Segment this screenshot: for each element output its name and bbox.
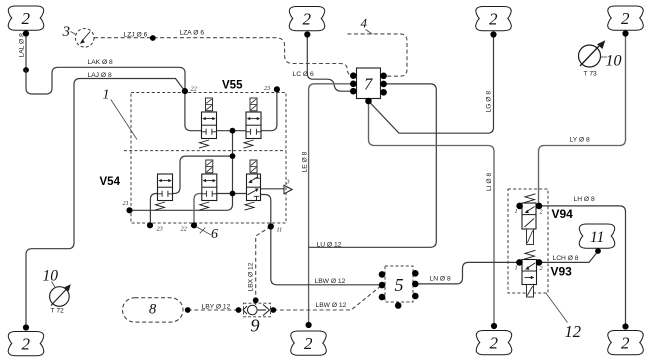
dashed wire LBW from connection 9 to unit 5 xyxy=(273,285,382,310)
svg-text:LY Ø 8: LY Ø 8 xyxy=(570,137,590,144)
svg-text:V93: V93 xyxy=(551,265,573,279)
wire LI from unit 7 bottom to bellows B7 xyxy=(369,101,495,326)
wire V55 valve 1 to valve 2 xyxy=(217,130,247,132)
wire LH from valve V94 port 2 to bellows B8 xyxy=(539,206,626,327)
svg-text:2: 2 xyxy=(540,265,543,272)
wire LAK from LAL junction to port 22 xyxy=(26,67,185,94)
dashed wire LBX from port 11 to filling connection 9 xyxy=(256,227,271,301)
pilot valve V54.1 xyxy=(155,174,173,210)
wire LU from unit 7 right to LE tee xyxy=(309,84,437,247)
node LAL junction xyxy=(23,67,29,73)
solenoid valve V54.3 three-way xyxy=(245,160,261,210)
dashed wire LBY from connector 8 to connection 9 xyxy=(188,309,239,311)
svg-text:2: 2 xyxy=(303,10,312,29)
callout leader 12 xyxy=(546,293,568,323)
node port 23 of V55 xyxy=(264,85,280,92)
air bellows B5 bottom-left xyxy=(8,324,44,355)
svg-text:1: 1 xyxy=(515,208,518,215)
dashed enclosure of valve block V55 V54 xyxy=(131,93,286,224)
svg-text:LG Ø 8: LG Ø 8 xyxy=(486,91,493,113)
wire port 23 to V55 valve 2 xyxy=(261,89,277,130)
svg-text:2: 2 xyxy=(490,334,499,353)
wire V54 valve 3 to port 11 xyxy=(261,195,271,227)
air bellows B6 bottom-middle-left xyxy=(291,322,327,355)
wire LN from unit 5 to valve V93 port 1 xyxy=(415,262,519,284)
wire V54 valve 2 left to port 22 xyxy=(194,194,202,226)
node port 23 bottom of V54 xyxy=(147,222,163,232)
dashed divider between V55 and V54 xyxy=(124,150,286,152)
callout leader 6 with tick xyxy=(196,227,211,235)
svg-text:LAJ Ø 8: LAJ Ø 8 xyxy=(88,72,112,79)
svg-text:T 72: T 72 xyxy=(51,308,65,315)
node V54 rail junction upper xyxy=(230,153,236,159)
svg-text:6: 6 xyxy=(211,227,218,242)
svg-text:V94: V94 xyxy=(552,207,574,221)
svg-text:LZA Ø 6: LZA Ø 6 xyxy=(180,30,205,37)
callout leader 3 xyxy=(71,32,77,35)
air bellows B8 bottom-right xyxy=(608,323,644,354)
svg-text:LBY Ø 12: LBY Ø 12 xyxy=(202,304,231,311)
svg-text:11: 11 xyxy=(590,229,604,246)
solenoid valve V55.2 xyxy=(244,98,262,148)
svg-text:22: 22 xyxy=(191,86,197,93)
levelling valve V94 xyxy=(515,194,543,245)
svg-text:2: 2 xyxy=(304,334,313,353)
svg-text:LU Ø 12: LU Ø 12 xyxy=(317,241,342,248)
callout leader 10 bottom-left xyxy=(52,282,56,289)
air bellows B1 top-left xyxy=(8,6,44,37)
svg-text:LCH Ø 8: LCH Ø 8 xyxy=(553,255,579,262)
svg-text:2: 2 xyxy=(621,9,630,28)
filling connection 9 xyxy=(236,297,277,316)
svg-text:2: 2 xyxy=(22,335,31,354)
svg-text:11: 11 xyxy=(277,227,283,234)
wire LE from unit 7 to bellows B6 xyxy=(309,84,354,325)
svg-text:9: 9 xyxy=(251,316,260,336)
test point 10 top-right T73 xyxy=(579,40,606,77)
wire port 22 to V55 valve 1 xyxy=(185,91,202,131)
test point 10 bottom-left T72 xyxy=(50,284,71,314)
svg-text:23: 23 xyxy=(264,85,270,92)
wire V54 valve 1 right to rail xyxy=(173,156,233,193)
svg-text:2: 2 xyxy=(540,209,543,216)
svg-text:T 73: T 73 xyxy=(584,71,598,78)
node V54 rail junction lower xyxy=(230,191,236,197)
svg-text:LZJ Ø 6: LZJ Ø 6 xyxy=(124,32,148,39)
svg-text:LE Ø 8: LE Ø 8 xyxy=(302,151,309,172)
wire LAL from bellows B1 to junction xyxy=(25,34,27,71)
svg-text:LAK Ø 8: LAK Ø 8 xyxy=(88,59,114,66)
wire LG from unit 7 bottom to bellows B3 xyxy=(369,35,494,134)
svg-text:3: 3 xyxy=(62,24,71,40)
svg-text:LI Ø 8: LI Ø 8 xyxy=(486,173,493,191)
node port 22 of V55 xyxy=(182,86,197,95)
connector 8 dashed xyxy=(123,298,191,322)
dashed wire loop item 4 xyxy=(347,34,407,76)
svg-text:23: 23 xyxy=(157,226,163,233)
air bellows B7 bottom-middle-right xyxy=(476,323,512,355)
wire V54 valve 3 exhaust xyxy=(261,188,285,190)
svg-text:10: 10 xyxy=(43,268,59,285)
svg-text:LBW Ø 12: LBW Ø 12 xyxy=(315,278,346,285)
wire LBW from port 11 to unit 5 xyxy=(271,227,382,285)
svg-text:10: 10 xyxy=(606,53,622,70)
callout leader 10 top-right xyxy=(601,56,607,58)
levelling valve V93 xyxy=(515,250,543,297)
svg-text:8: 8 xyxy=(149,302,157,318)
dashed wire from test connection 3 to unit 7 xyxy=(94,38,353,76)
air bellows B2 top-middle xyxy=(289,7,325,38)
callout leader 4 xyxy=(366,30,373,35)
svg-text:V54: V54 xyxy=(100,176,121,188)
test connection 3 dashed circle xyxy=(75,29,94,48)
wire LAJ from port 22 to bellows B5 xyxy=(26,79,185,328)
svg-text:2: 2 xyxy=(489,10,498,29)
exhaust triangle 3 of V54 xyxy=(284,185,292,194)
svg-text:1: 1 xyxy=(515,265,518,272)
svg-text:2: 2 xyxy=(621,334,630,353)
wire V54 valve 2 to valve 3 xyxy=(217,193,247,195)
svg-text:21: 21 xyxy=(123,200,129,207)
svg-text:V55: V55 xyxy=(222,80,243,92)
solenoid valve V54.2 xyxy=(199,160,217,210)
node V55 mid junction xyxy=(230,128,236,134)
svg-text:12: 12 xyxy=(565,322,582,341)
air bellows 11 right xyxy=(579,224,615,254)
svg-text:4: 4 xyxy=(361,16,368,31)
svg-text:LBX Ø 12: LBX Ø 12 xyxy=(248,262,255,291)
svg-text:LAL Ø 8: LAL Ø 8 xyxy=(19,33,26,58)
svg-text:LC Ø 6: LC Ø 6 xyxy=(293,71,314,78)
svg-text:1: 1 xyxy=(103,88,110,103)
air bellows B4 top-right xyxy=(608,6,644,37)
wire rail port 21 to V55 junction xyxy=(130,131,233,211)
wire V54 valve 1 left to port 23 xyxy=(150,194,157,226)
distribution unit 5 xyxy=(379,266,419,309)
node port 22 bottom of V54 xyxy=(181,222,198,232)
svg-text:7: 7 xyxy=(364,75,373,94)
callout leader 1 xyxy=(111,100,137,140)
wire LC from bellows B2 to unit 7 port xyxy=(307,35,353,92)
wire LCH from valve V93 port 2 to bellows 11 xyxy=(539,251,598,262)
dashed enclosure 12 of V94 V93 xyxy=(508,189,548,293)
node LZJ junction dot xyxy=(150,35,156,41)
wire LY from bellows B4 to valve V94 port 2 xyxy=(539,34,626,206)
svg-text:LN Ø 8: LN Ø 8 xyxy=(430,276,451,283)
node port 21 of V54 xyxy=(123,200,133,213)
svg-text:22: 22 xyxy=(181,226,187,233)
distribution unit 7 xyxy=(350,68,387,104)
solenoid valve V55.1 xyxy=(199,98,217,148)
svg-text:LBW Ø 12: LBW Ø 12 xyxy=(316,302,347,309)
svg-text:5: 5 xyxy=(395,275,404,295)
svg-text:LH Ø 8: LH Ø 8 xyxy=(574,196,595,203)
air bellows B3 top-right-inner xyxy=(476,7,512,38)
svg-text:2: 2 xyxy=(22,9,31,28)
node port 11 of V54 xyxy=(268,223,283,233)
